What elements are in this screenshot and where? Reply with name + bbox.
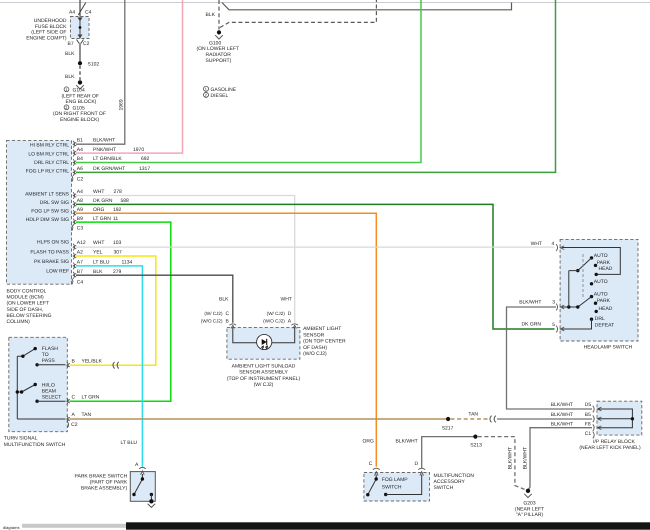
- svg-text:BLK: BLK: [93, 269, 103, 275]
- inline connector on YEL wire: [113, 362, 119, 369]
- svg-text:DRL: DRL: [595, 316, 605, 322]
- svg-text:FOG LP RLY CTRL: FOG LP RLY CTRL: [26, 168, 70, 174]
- svg-text:(W/O CJ2): (W/O CJ2): [201, 318, 223, 323]
- svg-text:A9: A9: [77, 207, 83, 213]
- svg-text:BLK: BLK: [219, 296, 229, 302]
- wire PNK/WHT 1970 BCM A4 to top: [76, 0, 183, 153]
- svg-text:C4: C4: [85, 9, 92, 15]
- wire TAN dashed S217 to connector: [451, 412, 490, 419]
- svg-text:BLK/WHT: BLK/WHT: [93, 137, 115, 143]
- svg-text:B7: B7: [68, 41, 74, 47]
- svg-text:TAN: TAN: [468, 412, 478, 418]
- svg-text:C: C: [72, 394, 76, 400]
- svg-text:ENG BLOCK): ENG BLOCK): [66, 99, 97, 105]
- svg-text:HDLP DIM SW SIG: HDLP DIM SW SIG: [26, 217, 69, 223]
- wire BLK/WHT to IP relay B5: [497, 412, 592, 419]
- svg-text:C2: C2: [77, 177, 84, 183]
- BCM connector C3: [72, 225, 84, 232]
- svg-text:BLK/WHT: BLK/WHT: [396, 439, 418, 445]
- svg-text:PARK: PARK: [597, 298, 611, 304]
- svg-text:LO BM RLY CTRL: LO BM RLY CTRL: [28, 152, 69, 158]
- svg-text:LOW REF: LOW REF: [46, 269, 69, 275]
- svg-text:A6: A6: [77, 166, 83, 172]
- svg-text:D5: D5: [585, 402, 592, 408]
- headlamp switch: [519, 239, 638, 350]
- svg-text:A4: A4: [69, 9, 75, 15]
- svg-text:C3: C3: [77, 226, 84, 232]
- svg-text:ORG: ORG: [93, 207, 105, 213]
- svg-text:SENSOR: SENSOR: [303, 332, 325, 338]
- svg-text:SELECT: SELECT: [42, 394, 61, 400]
- svg-text:DRL RLY CTRL: DRL RLY CTRL: [34, 160, 69, 166]
- connector B7/C2 below fuse block: [68, 40, 90, 48]
- svg-text:MULTIFUNCTION SWITCH: MULTIFUNCTION SWITCH: [4, 442, 66, 448]
- svg-text:LT GRN/BLK: LT GRN/BLK: [93, 156, 122, 162]
- svg-text:SENSOR ASSEMBLY: SENSOR ASSEMBLY: [239, 370, 288, 376]
- svg-text:FOG LP SW SIG: FOG LP SW SIG: [31, 208, 69, 214]
- footer watermark: [3, 522, 650, 530]
- wire ORG 192 BCM A9 to fog lamp switch: [76, 207, 376, 467]
- inline connector A4/C4: [78, 3, 86, 16]
- svg-text:DK GRN/WHT: DK GRN/WHT: [93, 166, 125, 172]
- svg-text:A8: A8: [77, 198, 83, 204]
- svg-text:A2: A2: [77, 250, 83, 256]
- svg-text:S102: S102: [88, 61, 100, 67]
- switch hi/lo beam: [17, 356, 35, 419]
- switch flash-to-pass: [17, 349, 35, 357]
- svg-text:278: 278: [114, 189, 123, 195]
- wire BLK/WHT dashed S213 to G203: [478, 437, 526, 490]
- common to pin A: [17, 418, 65, 420]
- svg-text:(W/ CJ2): (W/ CJ2): [204, 311, 223, 316]
- svg-text:DRL SW SIG: DRL SW SIG: [40, 200, 69, 206]
- svg-text:B5: B5: [585, 412, 591, 418]
- svg-text:B7: B7: [77, 269, 83, 275]
- svg-text:MULTIFUNCTION: MULTIFUNCTION: [434, 473, 475, 479]
- svg-text:1134: 1134: [122, 260, 133, 266]
- wire BLK/WHT fog switch D to S213: [396, 437, 475, 468]
- svg-text:BLK: BLK: [206, 12, 216, 18]
- svg-text:DEFEAT: DEFEAT: [595, 322, 614, 328]
- svg-text:diagrams: diagrams: [3, 525, 19, 530]
- svg-text:(NEAR LEFT KICK PANEL): (NEAR LEFT KICK PANEL): [579, 445, 641, 451]
- ground G104/G105: [53, 80, 106, 123]
- svg-text:SUPPORT): SUPPORT): [206, 58, 232, 64]
- BCM connector C4: [72, 278, 84, 285]
- svg-text:1317: 1317: [139, 166, 150, 172]
- svg-text:BLK/WHT: BLK/WHT: [519, 300, 541, 306]
- svg-text:FLASH TO PASS: FLASH TO PASS: [30, 249, 69, 255]
- svg-text:BELOW STEERING: BELOW STEERING: [7, 313, 52, 319]
- svg-text:(W/O CJ2): (W/O CJ2): [263, 318, 285, 323]
- svg-text:AMBIENT LIGHT SUNLOAD: AMBIENT LIGHT SUNLOAD: [232, 364, 296, 370]
- wire BLK/WHT 1969 from top to BCM B1: [76, 0, 125, 144]
- svg-text:C2: C2: [71, 422, 78, 428]
- svg-text:TURN SIGNAL: TURN SIGNAL: [4, 436, 38, 442]
- svg-text:(ON TOP CENTER: (ON TOP CENTER: [303, 339, 346, 345]
- svg-text:B4: B4: [77, 156, 83, 162]
- wire LT BLU 1134 BCM A7 to park brake switch: [76, 260, 142, 467]
- svg-text:BLK/WHT: BLK/WHT: [551, 422, 573, 428]
- svg-text:LT BLU: LT BLU: [93, 260, 110, 266]
- svg-text:ACCESSORY: ACCESSORY: [434, 479, 466, 485]
- BCM connector C2: [72, 176, 84, 183]
- svg-text:LT GRN: LT GRN: [93, 216, 111, 222]
- wire DK GRN/WHT 1317 BCM A6 to top: [76, 0, 556, 172]
- wire top border line: [0, 2, 650, 4]
- wire BLK dashed S102 to G104: [65, 66, 80, 81]
- svg-text:PNK/WHT: PNK/WHT: [93, 147, 116, 153]
- wire YEL 307 BCM A2 to turn signal switch: [70, 250, 156, 366]
- svg-text:F8: F8: [585, 422, 591, 428]
- ground park brake: [149, 499, 153, 503]
- svg-text:B1: B1: [77, 137, 83, 143]
- relay internal bus: [598, 409, 632, 428]
- svg-text:BLK: BLK: [65, 51, 75, 57]
- ground G203: [515, 489, 544, 519]
- svg-text:AUTO: AUTO: [594, 279, 608, 285]
- svg-text:LT BLU: LT BLU: [121, 440, 138, 446]
- svg-text:WHT: WHT: [281, 296, 292, 302]
- svg-text:AMBIENT LT SENS: AMBIENT LT SENS: [25, 192, 70, 198]
- turn signal switch pin brackets: [67, 362, 70, 428]
- svg-text:588: 588: [121, 198, 130, 204]
- splice S217: [442, 417, 454, 431]
- svg-text:PARK BRAKE SWITCH: PARK BRAKE SWITCH: [74, 474, 127, 480]
- legend gasoline/diesel: [204, 86, 237, 99]
- svg-text:A7: A7: [77, 260, 83, 266]
- svg-text:BLK/WHT: BLK/WHT: [551, 412, 573, 418]
- svg-text:OF DASH): OF DASH): [303, 345, 327, 351]
- svg-text:(W/ CJ2): (W/ CJ2): [254, 382, 274, 388]
- svg-text:C: C: [226, 311, 230, 317]
- svg-text:103: 103: [113, 240, 122, 246]
- pin 4 internal wire to HEAD: [562, 248, 620, 275]
- svg-text:MODULE (BCM): MODULE (BCM): [7, 295, 45, 301]
- svg-text:YEL: YEL: [93, 250, 103, 256]
- fog lamp switch: [363, 439, 430, 501]
- body control module BCM: [7, 141, 72, 325]
- svg-text:B9: B9: [77, 216, 83, 222]
- svg-text:LT GRN: LT GRN: [82, 394, 100, 400]
- svg-text:S217: S217: [442, 425, 454, 431]
- svg-text:192: 192: [113, 207, 122, 213]
- svg-text:C2: C2: [83, 41, 90, 47]
- svg-text:HLPS ON SIG: HLPS ON SIG: [37, 240, 69, 246]
- IP relay block: [579, 401, 641, 451]
- svg-text:WHT: WHT: [93, 189, 104, 195]
- wire LT BLU label: [121, 440, 138, 446]
- svg-text:4: 4: [552, 241, 555, 247]
- wire into underhood fuse block: [69, 0, 92, 17]
- svg-text:DK GRN: DK GRN: [93, 198, 113, 204]
- svg-text:BRAKE ASSEMBLY): BRAKE ASSEMBLY): [81, 486, 128, 492]
- relay pin brackets: [593, 406, 594, 413]
- svg-text:BLK: BLK: [65, 74, 75, 80]
- wire BLK/WHT top feed from fuse block to right: [222, 3, 512, 10]
- svg-text:692: 692: [141, 156, 150, 162]
- svg-text:SWITCH: SWITCH: [382, 484, 402, 490]
- svg-text:3: 3: [552, 300, 555, 306]
- wire BLK fuse block to S102: [65, 44, 80, 62]
- underhood fuse block: [26, 17, 89, 42]
- svg-text:WHT: WHT: [93, 240, 104, 246]
- svg-text:(PART OF PARK: (PART OF PARK: [90, 480, 128, 486]
- svg-text:(TOP OF INSTRUMENT PANEL): (TOP OF INSTRUMENT PANEL): [227, 376, 301, 382]
- wire BLK 279 BCM B7 to ambient sensor: [76, 269, 233, 323]
- svg-text:A4: A4: [77, 147, 83, 153]
- svg-text:1969: 1969: [119, 99, 125, 110]
- svg-text:BLK/WHT: BLK/WHT: [523, 447, 529, 469]
- svg-text:DK GRN: DK GRN: [522, 321, 542, 327]
- svg-text:C1: C1: [585, 431, 592, 437]
- wire TAN turn signal to S217: [70, 418, 449, 420]
- wire LT GRN 11 BCM B9 to turn signal switch: [70, 216, 171, 401]
- mechanical link dashed: [582, 254, 584, 299]
- svg-text:A12: A12: [77, 240, 86, 246]
- multifunction accessory switch label: [434, 473, 475, 491]
- svg-text:C: C: [369, 461, 373, 467]
- BCM pin brackets: [73, 141, 76, 279]
- svg-text:1970: 1970: [133, 147, 144, 153]
- svg-text:COLUMN): COLUMN): [7, 319, 31, 325]
- park brake switch: [74, 462, 155, 508]
- splice S213: [470, 435, 482, 449]
- svg-text:HI BM RLY CTRL: HI BM RLY CTRL: [30, 142, 69, 148]
- svg-text:GASOLINE: GASOLINE: [211, 87, 237, 93]
- svg-text:A4: A4: [77, 189, 83, 195]
- wire DK GRN 588 BCM A8 to headlamp switch 5: [76, 198, 555, 329]
- svg-text:ORG: ORG: [363, 439, 375, 445]
- wire BLK dashed from G100 running right and up: [206, 0, 377, 30]
- svg-text:AUTO: AUTO: [594, 292, 608, 298]
- svg-text:C4: C4: [77, 280, 84, 286]
- svg-text:BLK/WHT: BLK/WHT: [551, 402, 573, 408]
- svg-text:FOG LAMP: FOG LAMP: [382, 477, 409, 483]
- svg-text:"A" PILLAR): "A" PILLAR): [516, 512, 544, 518]
- photodiode: [233, 327, 295, 342]
- svg-text:AUTO: AUTO: [594, 253, 608, 259]
- svg-text:WHT: WHT: [531, 241, 542, 247]
- svg-text:D: D: [288, 311, 292, 317]
- svg-text:(ON LOWER LEFT: (ON LOWER LEFT: [7, 301, 50, 307]
- turn signal multifunction switch: [4, 337, 68, 448]
- wire BLK/WHT IP relay F8 to G203: [523, 422, 592, 490]
- wire WHT 103 BCM A12 to headlamp switch 4: [76, 240, 555, 247]
- svg-text:BODY CONTROL: BODY CONTROL: [7, 289, 47, 295]
- wire LT GRN/BLK 692 BCM B4 to top: [76, 0, 421, 163]
- svg-text:ENGINE BLOCK): ENGINE BLOCK): [60, 117, 100, 123]
- svg-text:DIESEL: DIESEL: [211, 93, 229, 99]
- svg-text:(W/ CJ2): (W/ CJ2): [267, 311, 286, 316]
- svg-text:5: 5: [552, 322, 555, 328]
- svg-text:S213: S213: [470, 443, 482, 449]
- svg-text:YEL/BLK: YEL/BLK: [82, 358, 103, 364]
- svg-text:PASS: PASS: [42, 358, 56, 364]
- svg-text:SIDE OF DASH,: SIDE OF DASH,: [7, 307, 44, 313]
- svg-text:TAN: TAN: [82, 412, 92, 418]
- ground G100: [197, 30, 240, 64]
- svg-text:ENGINE COMPT): ENGINE COMPT): [26, 35, 67, 41]
- splice S102: [78, 61, 99, 67]
- svg-text:PK BRAKE SIG: PK BRAKE SIG: [34, 259, 69, 265]
- wire BLK/WHT headlamp 3 to IP relay D5: [507, 307, 593, 409]
- ambient light sensor assembly: [201, 296, 346, 388]
- svg-text:HEADLAMP SWITCH: HEADLAMP SWITCH: [584, 344, 633, 350]
- svg-text:HEAD: HEAD: [599, 266, 613, 272]
- turn signal pin labels: [71, 358, 102, 428]
- inline connector on TAN/BLKWHT wire: [490, 416, 496, 423]
- svg-text:11: 11: [113, 216, 118, 222]
- svg-text:AMBIENT LIGHT: AMBIENT LIGHT: [303, 326, 341, 332]
- svg-text:279: 279: [113, 269, 122, 275]
- svg-text:BLK/WHT: BLK/WHT: [508, 447, 514, 469]
- svg-text:307: 307: [114, 250, 123, 256]
- svg-text:I/P RELAY BLOCK: I/P RELAY BLOCK: [593, 439, 635, 445]
- svg-text:SWITCH: SWITCH: [434, 485, 454, 491]
- svg-text:(W/O CJ2): (W/O CJ2): [303, 351, 327, 357]
- svg-text:D: D: [415, 461, 419, 467]
- sensor pin arrows: [229, 324, 236, 325]
- wire WHT 278 BCM A4 to ambient sensor: [76, 189, 295, 323]
- svg-text:HEAD: HEAD: [599, 306, 613, 312]
